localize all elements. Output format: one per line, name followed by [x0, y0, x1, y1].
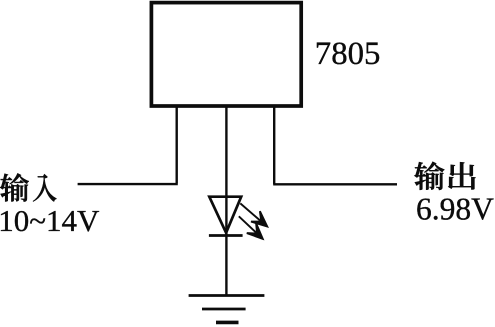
svg-text:7805: 7805 — [315, 36, 381, 72]
svg-text:10~14V: 10~14V — [0, 203, 100, 238]
svg-text:6.98V: 6.98V — [416, 192, 494, 227]
